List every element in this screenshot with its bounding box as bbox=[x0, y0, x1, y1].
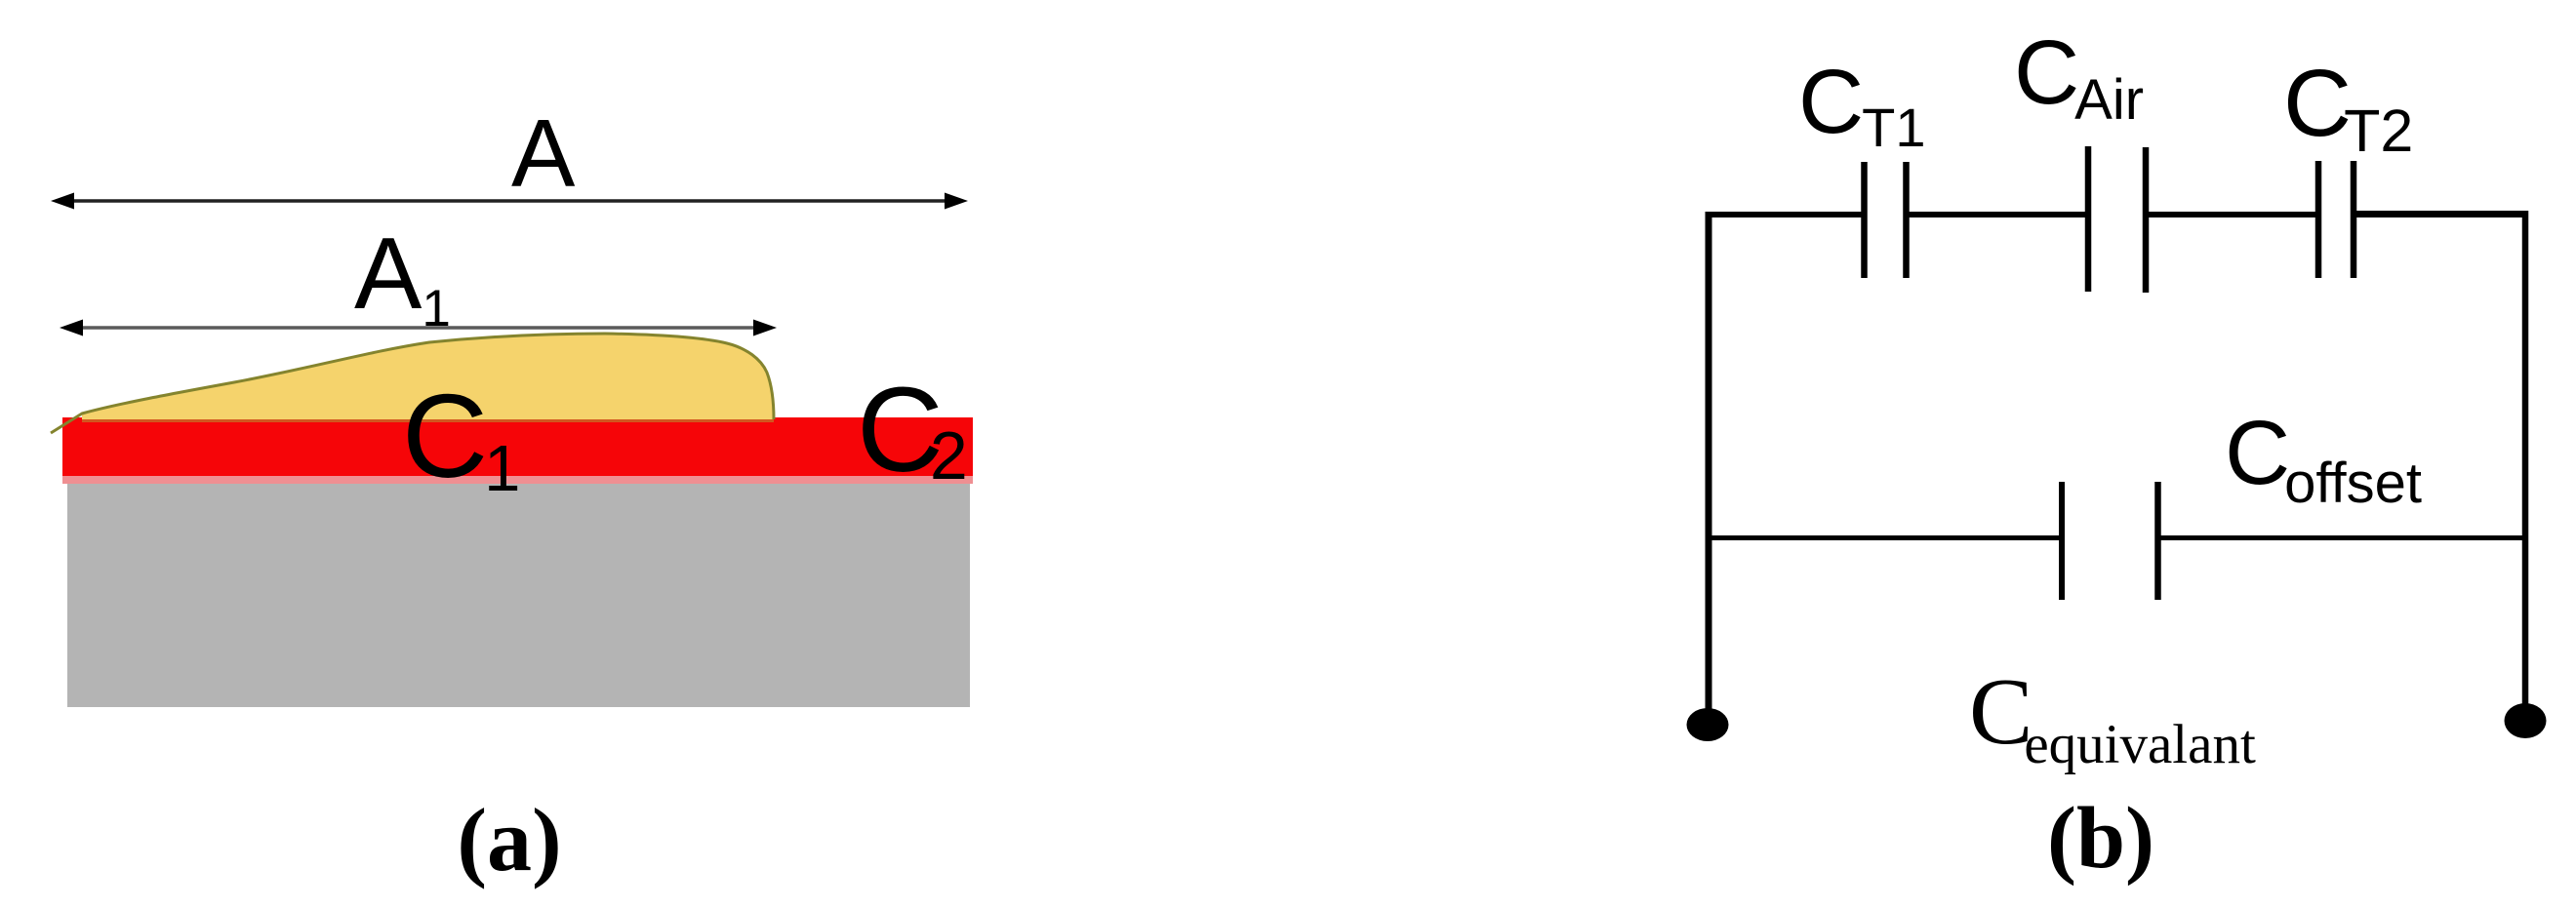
svg-text:(a): (a) bbox=[457, 790, 561, 889]
svg-text:A: A bbox=[511, 99, 576, 207]
terminal left (node dot) bbox=[1687, 708, 1729, 741]
capacitor C_Air bbox=[2088, 146, 2146, 293]
capacitor C_offset bbox=[2062, 482, 2158, 600]
svg-text:(b): (b) bbox=[2047, 790, 2154, 887]
wire: middle segment C_offset to right bbox=[2158, 535, 2528, 540]
wire: top segment C_Air to C_T2 bbox=[2146, 212, 2318, 217]
capacitor C_T2 bbox=[2318, 161, 2354, 278]
svg-text:CT1: CT1 bbox=[1798, 51, 1926, 158]
svg-text:CAir: CAir bbox=[2014, 21, 2144, 132]
dimension arrow A1 bbox=[60, 320, 777, 336]
finger contact junction line (red/yellow blend) bbox=[82, 418, 774, 422]
svg-text:C2: C2 bbox=[857, 364, 968, 497]
finger (touch) blob outline bbox=[51, 334, 774, 433]
terminal right (node dot) bbox=[2505, 703, 2547, 738]
svg-text:Coffset: Coffset bbox=[2225, 402, 2422, 515]
dimension arrow A bbox=[51, 193, 968, 210]
substrate layer (gray) bbox=[67, 483, 970, 707]
wire: left vertical bbox=[1706, 212, 1712, 724]
wire: middle segment left to C_offset bbox=[1706, 535, 2062, 540]
wire: top segment C_T2 to right corner bbox=[2354, 211, 2528, 217]
dielectric strip bottom edge (pink fade) bbox=[62, 475, 973, 484]
svg-text:A1: A1 bbox=[354, 217, 451, 337]
wire: top segment C_T1 to C_Air bbox=[1905, 212, 2088, 217]
wire: right vertical bbox=[2522, 211, 2529, 721]
dielectric layer (red) bbox=[62, 417, 973, 476]
wire: top segment left corner to C_T1 bbox=[1706, 212, 1866, 217]
finger (touch) blob fill bbox=[82, 334, 774, 419]
svg-text:CT2: CT2 bbox=[2283, 50, 2413, 164]
capacitor C_T1 bbox=[1865, 162, 1907, 278]
svg-text:Cequivalant: Cequivalant bbox=[1969, 659, 2256, 775]
